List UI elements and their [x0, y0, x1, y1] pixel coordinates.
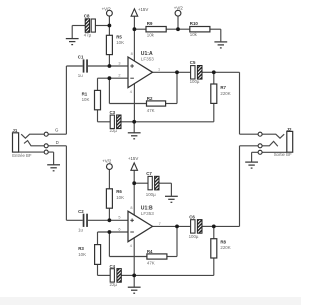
- svg-text:R10: R10: [190, 21, 199, 26]
- wire +V/2 divider terminal stem: [177, 16, 179, 29]
- J2 ring terminal: [258, 144, 262, 148]
- resistor R5 10K: [106, 35, 112, 54]
- connector J2 jack body: [287, 131, 293, 152]
- wire U1:B pin 4 to bottom ground node: [133, 238, 135, 276]
- net +V/2 terminal (top left): [102, 7, 113, 16]
- wire R7 node to right column: [214, 71, 240, 73]
- wire pin2 node down to R1 top: [97, 78, 99, 90]
- junction pin2 node: [108, 76, 112, 80]
- svg-text:8: 8: [130, 206, 132, 210]
- svg-text:22µ: 22µ: [110, 128, 118, 133]
- wire R1 bottom to C3 row: [97, 110, 99, 122]
- wire feedback riser to output node: [176, 72, 178, 103]
- capacitor C1 1u plates: [83, 59, 88, 72]
- svg-text:+15V: +15V: [128, 156, 138, 161]
- resistor R8 220K: [211, 239, 217, 258]
- svg-text:R7: R7: [220, 85, 226, 90]
- svg-text:47K: 47K: [147, 108, 155, 113]
- resistor R6 10K: [106, 189, 112, 208]
- ground (C7 decoupling): [165, 196, 178, 202]
- resistor R4 47K: [147, 254, 167, 259]
- svg-text:G: G: [55, 127, 59, 132]
- ground (J2 sleeve): [245, 162, 258, 168]
- wire C1 right to U1:A pin 3: [88, 65, 128, 67]
- svg-text:Entrée BF: Entrée BF: [12, 153, 32, 158]
- junction C3/pin4/ground: [132, 120, 136, 124]
- wire to J2 tip contact: [240, 133, 259, 135]
- svg-text:Sortie BF: Sortie BF: [274, 152, 292, 157]
- wire R8 top stem: [213, 226, 215, 238]
- svg-text:1u: 1u: [78, 227, 83, 232]
- wire U1:A output to C5 left: [153, 71, 191, 73]
- power flag +15V (bottom): [128, 156, 138, 170]
- wire +V/2 terminal stem to R6 top: [108, 170, 110, 189]
- svg-text:47K: 47K: [147, 260, 155, 265]
- junction pin5 node: [108, 218, 112, 222]
- capacitor C5 100u polarized: [191, 66, 202, 80]
- net +V/2 terminal (bottom): [102, 159, 112, 170]
- svg-text:C5: C5: [190, 60, 196, 65]
- wire C3 right plate to ground node: [121, 121, 134, 123]
- svg-text:6: 6: [118, 227, 120, 231]
- svg-text:C6: C6: [189, 214, 195, 219]
- capacitor C4 22u polarized: [110, 269, 121, 283]
- wire R9 right to R10 left: [166, 28, 190, 30]
- svg-text:100µ: 100µ: [189, 234, 199, 239]
- svg-text:8: 8: [131, 52, 133, 56]
- junction +15V/C7: [132, 181, 136, 185]
- wire ground stem below C4 node: [133, 275, 135, 287]
- junction pin3 node: [108, 64, 112, 68]
- op-amp U1:B LF353: [128, 206, 154, 242]
- junction C4/pin4/ground: [132, 274, 136, 278]
- junction U1:A output: [175, 70, 179, 74]
- wire D vertical riser: [65, 146, 67, 221]
- J1 tip terminal: [44, 132, 48, 136]
- svg-text:2: 2: [118, 74, 120, 78]
- resistor R2 47K: [147, 101, 166, 106]
- wire +15V node B to U1:B pin 8: [133, 183, 135, 215]
- wire C8 to +V/2 node: [95, 25, 109, 27]
- wire pin6 node down to R3 top: [97, 232, 99, 245]
- capacitor C7 100u polarized: [148, 176, 159, 190]
- J1 sleeve terminal: [44, 150, 48, 154]
- svg-text:1: 1: [158, 68, 160, 72]
- svg-text:+V/2: +V/2: [102, 7, 112, 12]
- wire R5 bottom to pin3 node: [108, 55, 110, 66]
- svg-text:3: 3: [118, 61, 120, 65]
- junction C6/R8: [212, 225, 216, 229]
- svg-text:10K: 10K: [116, 195, 124, 200]
- net +V/2 terminal (divider): [174, 5, 184, 16]
- wire C8 ground stem: [71, 26, 73, 39]
- svg-text:C3: C3: [110, 110, 116, 115]
- ground (C8 decoupling): [66, 39, 79, 45]
- junction +15V/R9: [133, 27, 137, 31]
- wire +15V node B to C7 left: [134, 182, 148, 184]
- wire to C4 left plate: [98, 274, 111, 276]
- junction pin6 node: [108, 230, 112, 234]
- svg-text:22µ: 22µ: [110, 282, 118, 287]
- capacitor C8 47u polarized: [85, 19, 95, 33]
- wire J1 ground stem: [53, 152, 55, 164]
- svg-text:LF353: LF353: [141, 57, 154, 62]
- J1 ring switch contact: [24, 141, 44, 146]
- wire J2 ground stem: [251, 152, 253, 161]
- svg-text:+V/2: +V/2: [174, 5, 184, 10]
- wire to J2 ring contact: [240, 145, 259, 147]
- svg-text:10k: 10k: [147, 32, 155, 37]
- wire +15V flag B stem: [133, 170, 135, 183]
- svg-text:+V/2: +V/2: [102, 159, 112, 164]
- svg-text:1u: 1u: [78, 73, 83, 78]
- wire C8 to ground tap: [72, 25, 85, 27]
- svg-text:J2: J2: [287, 127, 292, 132]
- wire bottom ground rail to R8 bottom: [134, 274, 214, 276]
- wire J1 tip contact to G riser: [48, 133, 66, 135]
- wire node G column to C1 left: [66, 65, 82, 67]
- J2 tip switch contact: [262, 134, 284, 138]
- wire pin6 node to U1:B pin 6: [98, 231, 129, 233]
- svg-text:10K: 10K: [78, 252, 86, 257]
- svg-text:C1: C1: [78, 55, 84, 60]
- wire R10 right to ground tap: [210, 28, 221, 30]
- wire C7 ground stem: [170, 183, 172, 196]
- wire pin2 node to U1:A pin 2: [98, 77, 129, 79]
- capacitor C6 100u polarized: [191, 220, 202, 234]
- svg-text:R9: R9: [147, 21, 153, 26]
- wire R7 top stem: [213, 72, 215, 84]
- wire +15V node to R9 left: [134, 28, 146, 30]
- wire R8 bottom stem: [213, 258, 215, 275]
- wire ground stem below C3 node: [133, 122, 135, 133]
- svg-text:10K: 10K: [82, 97, 90, 102]
- svg-text:R3: R3: [78, 246, 84, 251]
- wire right column up to J2 ring row: [239, 146, 241, 227]
- svg-text:5: 5: [118, 216, 120, 220]
- wire feedback row to R2 left: [109, 103, 146, 105]
- svg-text:100µ: 100µ: [190, 79, 200, 84]
- power flag +15V (top): [131, 7, 148, 16]
- wire C2 right to U1:B pin 5: [88, 219, 128, 221]
- resistor R9 10k: [146, 27, 166, 32]
- junction divider +V/2: [176, 27, 180, 31]
- svg-text:220K: 220K: [220, 245, 230, 250]
- wire U1:A pin 4 to ground node: [133, 84, 135, 122]
- svg-text:4: 4: [130, 90, 132, 94]
- connector J1 jack body: [13, 133, 19, 152]
- wire R10 ground stem: [220, 29, 222, 41]
- wire J1 sleeve to ground tap: [19, 151, 54, 153]
- wire J1 ring contact to D column: [48, 145, 66, 147]
- svg-text:R2: R2: [147, 96, 153, 101]
- resistor R1 10K: [95, 90, 101, 109]
- svg-text:C7: C7: [146, 171, 152, 176]
- wire to C3 left plate: [98, 121, 111, 123]
- svg-text:+15V: +15V: [138, 7, 148, 12]
- ground (R10 divider): [214, 42, 227, 48]
- capacitor C2 1u plates: [83, 214, 88, 227]
- wire R6 bottom to pin5 node: [108, 208, 110, 220]
- svg-text:R5: R5: [116, 35, 122, 40]
- wire feedback row B to R4 left: [109, 256, 146, 258]
- op-amp U1:A LF353: [128, 51, 154, 87]
- J1 ring terminal: [44, 144, 48, 148]
- svg-text:R4: R4: [147, 249, 153, 254]
- svg-text:R8: R8: [220, 239, 226, 244]
- svg-text:LF353: LF353: [141, 211, 154, 216]
- wire C7 right to ground tap: [159, 182, 171, 184]
- resistor R7 220K: [211, 84, 217, 103]
- wire G vertical riser: [65, 66, 67, 134]
- wire +15V node to U1:A pin 8: [133, 29, 135, 61]
- svg-text:R6: R6: [116, 189, 122, 194]
- junction C5/R7: [212, 70, 216, 74]
- svg-text:10k: 10k: [190, 32, 198, 37]
- svg-text:10K: 10K: [116, 40, 124, 45]
- wire right column down to J2 tip row: [239, 72, 241, 134]
- svg-text:C4: C4: [110, 264, 116, 269]
- wire R2 right to feedback riser: [166, 103, 177, 105]
- wire C4 right plate to ground node: [121, 274, 134, 276]
- wire J2 sleeve to ground tap: [252, 151, 287, 153]
- wire feedback riser B to output node B: [176, 226, 178, 256]
- wire D riser to C2 left: [66, 219, 82, 221]
- wire pin2 node down to feedback row: [108, 78, 110, 103]
- J1 tip switch contact: [21, 134, 44, 138]
- svg-text:47µ: 47µ: [84, 33, 92, 38]
- J2 tip terminal: [258, 132, 262, 136]
- wire R8 node to right column B: [214, 225, 240, 227]
- svg-text:J1: J1: [12, 128, 17, 133]
- resistor R3 10K: [95, 245, 101, 265]
- wire R7 bottom stem: [213, 103, 215, 121]
- wire R4 right to feedback riser B: [167, 256, 177, 258]
- wire C5 right to R7 node: [202, 71, 214, 73]
- capacitor C3 22u polarized: [110, 115, 121, 129]
- svg-text:C2: C2: [78, 209, 84, 214]
- svg-text:4: 4: [130, 244, 132, 248]
- svg-text:R1: R1: [82, 91, 88, 96]
- junction U1:B output: [175, 225, 179, 229]
- wire C6 right to R8 node: [202, 225, 214, 227]
- wire R3 bottom to C4 row: [97, 264, 99, 275]
- wire +15V flag stem: [133, 16, 135, 29]
- wire ground rail to R7 bottom: [134, 121, 214, 123]
- junction C8/+V2/R5: [108, 24, 112, 28]
- ground (U1:B supply rail): [128, 287, 141, 293]
- resistor R10 10k: [190, 27, 210, 32]
- J2 ring switch contact: [262, 141, 278, 146]
- wire pin6 node down to feedback row B: [108, 232, 110, 257]
- svg-text:D: D: [56, 140, 59, 145]
- ground (U1:A supply rail): [128, 133, 141, 139]
- ground (J1 sleeve): [47, 165, 60, 171]
- svg-text:C8: C8: [84, 13, 90, 18]
- svg-text:220K: 220K: [220, 91, 230, 96]
- wire +V/2 terminal stem to R5 top: [108, 16, 110, 35]
- J2 sleeve terminal: [258, 150, 262, 154]
- wire U1:B output to C6 left: [153, 225, 191, 227]
- svg-text:7: 7: [159, 222, 161, 226]
- svg-text:100µ: 100µ: [146, 192, 156, 197]
